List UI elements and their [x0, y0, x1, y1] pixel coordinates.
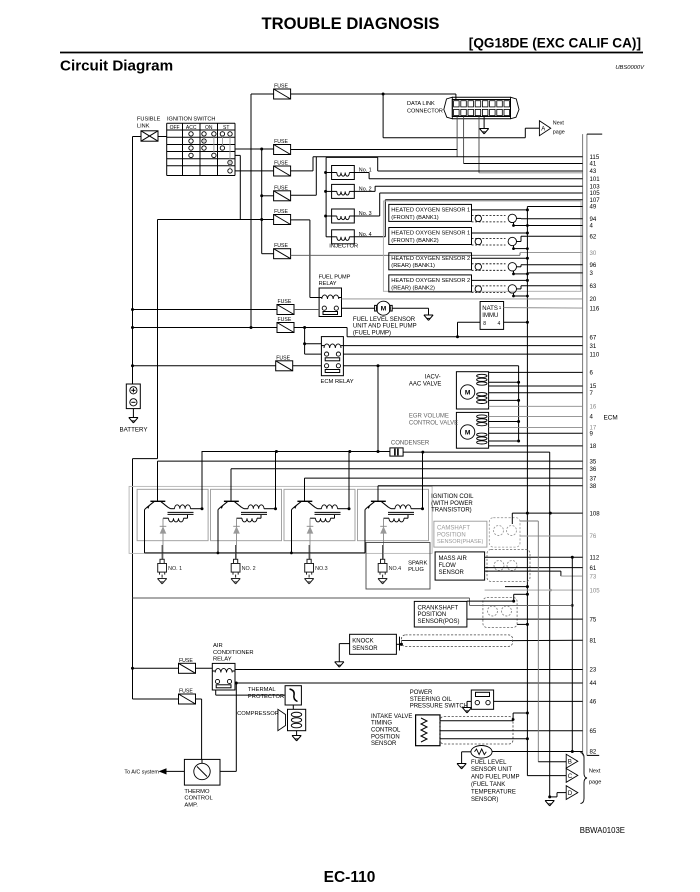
svg-text:FUSE: FUSE: [274, 243, 288, 249]
compressor CP: [278, 709, 306, 730]
wire crank shield: [467, 585, 529, 603]
condenser label: [391, 440, 430, 446]
svg-text:SENSOR UNIT: SENSOR UNIT: [471, 767, 512, 773]
svg-text:HEATED OXYGEN SENSOR 2: HEATED OXYGEN SENSOR 2: [391, 278, 470, 284]
svg-text:81: 81: [590, 637, 597, 644]
svg-text:30: 30: [590, 250, 597, 257]
svg-text:FUEL LEVEL: FUEL LEVEL: [471, 760, 507, 766]
svg-text:FUSE: FUSE: [276, 355, 290, 361]
wire crank pin75: [467, 618, 583, 620]
wire supply after condenser: [403, 451, 550, 454]
wire sensor shield riser: [571, 557, 574, 753]
svg-text:PLUG: PLUG: [408, 567, 424, 573]
fusible link label: [137, 117, 161, 130]
svg-text:NO. 1: NO. 1: [168, 566, 182, 572]
wire C arrow: [527, 775, 566, 777]
svg-text:(REAR) (BANK2): (REAR) (BANK2): [391, 285, 435, 291]
svg-text:FUSE: FUSE: [274, 209, 288, 215]
wire DLC pin3: [478, 117, 480, 173]
wire camshaft pin76: [520, 535, 583, 537]
ECM label: [604, 415, 618, 422]
svg-text:FUSE: FUSE: [179, 689, 193, 695]
svg-text:FUSE: FUSE: [278, 299, 292, 305]
wire pin108 line: [512, 512, 582, 524]
DLC ground: [480, 117, 489, 134]
svg-text:(FRONT) (BANK2): (FRONT) (BANK2): [391, 238, 439, 244]
svg-text:43: 43: [590, 168, 597, 175]
ECM relay RY2: [321, 337, 343, 376]
svg-text:4: 4: [498, 321, 501, 327]
wire DLC pin2: [463, 117, 465, 164]
wire ecm relay coil to 31: [343, 345, 582, 347]
fuse F2: [274, 139, 291, 155]
svg-text:23: 23: [590, 667, 597, 674]
svg-text:INJECTOR: INJECTOR: [329, 244, 358, 250]
wire heated oxygen sensor 1 front bank2 pinB: [517, 236, 583, 241]
svg-text:M: M: [381, 306, 387, 313]
svg-text:CONDITIONER: CONDITIONER: [213, 650, 254, 656]
svg-text:82: 82: [590, 749, 597, 756]
ignition switch contacts: [189, 132, 232, 173]
air conditioner relay label: [213, 643, 254, 662]
svg-text:B: B: [568, 759, 572, 766]
svg-text:[QG18DE (EXC CALIF CA)]: [QG18DE (EXC CALIF CA)]: [469, 36, 641, 51]
wire ign jog to left bus: [133, 458, 158, 460]
svg-text:CONTROL: CONTROL: [184, 796, 213, 802]
wire crank shield bottom: [517, 623, 529, 626]
svg-text:CRANKSHAFT: CRANKSHAFT: [418, 606, 459, 612]
next page label BCD: [589, 768, 601, 785]
svg-text:COMPRESSOR: COMPRESSOR: [237, 711, 279, 717]
fuse F6: [274, 243, 291, 259]
fuel pump motor M1: [375, 301, 393, 315]
spark plug4 box: [366, 543, 430, 590]
wire thermo riser: [220, 683, 236, 771]
wire heated oxygen sensor 2 rear bank2 pinA: [527, 272, 582, 274]
svg-text:SPARK: SPARK: [408, 560, 427, 566]
figure code BBWA0103E: [580, 826, 625, 835]
svg-text:IACV-: IACV-: [425, 374, 441, 380]
to ac system label: [124, 770, 159, 776]
spark plug P2: [231, 545, 256, 584]
svg-text:TRANSISTOR): TRANSISTOR): [431, 508, 472, 514]
svg-text:62: 62: [590, 234, 597, 241]
ac bus vertical: [132, 459, 134, 699]
svg-text:67: 67: [590, 334, 597, 341]
svg-text:D: D: [568, 790, 573, 797]
wire fuse5 left stub: [262, 219, 274, 221]
svg-text:EGR VOLUME: EGR VOLUME: [409, 414, 449, 420]
next page brace: [581, 753, 588, 804]
fuel sensor ground: [457, 764, 466, 769]
svg-text:SENSOR(POS): SENSOR(POS): [418, 619, 460, 625]
svg-text:C: C: [568, 773, 573, 780]
thermo control amp TCA: [184, 759, 220, 785]
svg-text:38: 38: [590, 483, 597, 490]
fuel pump relay RY1: [319, 288, 341, 317]
svg-text:DATA LINK: DATA LINK: [407, 101, 435, 107]
svg-text:63: 63: [590, 283, 597, 290]
wire fuse9 left: [133, 365, 276, 367]
fuel pump label: [353, 317, 417, 336]
wire to ac system: [159, 768, 185, 774]
ignition coil unit Q1: [137, 452, 208, 560]
wire heated oxygen sensor 2 rear bank2 pinB: [517, 286, 583, 289]
wire knock ground: [339, 644, 349, 662]
svg-text:PROTECTOR: PROTECTOR: [248, 694, 284, 700]
svg-text:101: 101: [590, 176, 601, 183]
wire pin115 line: [313, 156, 583, 158]
wire fuse4 left: [262, 195, 274, 197]
wire fuse10 to relay: [196, 667, 213, 669]
svg-text:16: 16: [590, 404, 597, 411]
wire ac bus corner fuse11: [133, 698, 179, 700]
ECM relay label: [321, 379, 354, 385]
compressor label: [237, 711, 279, 717]
svg-text:IMMU: IMMU: [482, 313, 498, 319]
wire fuse9 to relay: [293, 365, 322, 367]
wire pin41 line: [464, 163, 583, 165]
wire injector1 out: [354, 173, 582, 179]
svg-text:HEATED OXYGEN SENSOR 2: HEATED OXYGEN SENSOR 2: [391, 256, 470, 262]
ignition coil unit Q2: [211, 452, 282, 560]
svg-text:FLOW: FLOW: [439, 563, 457, 569]
wire ecm relay out: [343, 364, 518, 367]
wire ivt pin65: [440, 730, 583, 732]
wire injector4 out: [354, 200, 582, 237]
thermo control amp label: [184, 789, 213, 809]
svg-text:SENSOR): SENSOR): [471, 797, 498, 803]
wire knock signal: [396, 637, 582, 651]
fuse F9: [276, 355, 293, 371]
ignition switch SW1 table: [167, 123, 235, 175]
battery label: [120, 427, 148, 434]
spark plug P4: [378, 545, 401, 584]
svg-text:ECM RELAY: ECM RELAY: [321, 379, 354, 385]
wire iacv pin6: [489, 371, 583, 373]
svg-text:(REAR) (BANK1): (REAR) (BANK1): [391, 263, 435, 269]
svg-text:AIR: AIR: [213, 643, 223, 649]
sensor ground bus vertical: [526, 207, 528, 776]
fusible link FL: [141, 131, 158, 141]
ignition switch label: [167, 117, 215, 123]
fuse feed bus B: [260, 149, 263, 254]
wire ignition ground bus: [145, 552, 366, 555]
wire maf pin73: [485, 571, 583, 576]
power steering ground: [462, 708, 471, 713]
junction dot fuse7 tap: [131, 308, 134, 311]
svg-text:41: 41: [590, 161, 597, 168]
EGR volume control valve V2: [456, 412, 488, 448]
wire heated oxygen sensor 1 front bank2 pinA: [527, 225, 582, 227]
wire ecm relay row1 to 110: [343, 353, 582, 355]
knock sensor ground: [335, 662, 344, 667]
svg-text:UNIT AND FUEL PUMP: UNIT AND FUEL PUMP: [353, 324, 417, 330]
wire fuel level to 82: [492, 751, 582, 753]
svg-text:AND FUEL PUMP: AND FUEL PUMP: [471, 775, 519, 781]
wire fuse7 left: [133, 309, 278, 311]
svg-text:18: 18: [590, 443, 597, 450]
wire ignition supply: [202, 450, 390, 453]
wire relay riser to supply: [377, 366, 379, 452]
svg-text:96: 96: [590, 262, 597, 269]
injector No.2: [326, 184, 372, 198]
crankshaft position sensor CKP: [414, 598, 517, 628]
NATS IMMU unit U2: [480, 302, 504, 330]
IACV label: [409, 374, 441, 387]
svg-text:M: M: [465, 430, 471, 437]
spark plug P1: [158, 545, 183, 584]
wire fuel sensor ground: [462, 752, 471, 764]
svg-text:46: 46: [590, 699, 597, 706]
wire DLC gray line: [479, 172, 583, 174]
thermal protector TP: [285, 686, 301, 705]
wire fuse2 out: [291, 149, 458, 151]
svg-text:105: 105: [590, 587, 601, 594]
fuse F11: [179, 689, 196, 705]
svg-text:TEMPERATURE: TEMPERATURE: [471, 789, 516, 795]
wire ps ground: [467, 701, 471, 707]
thermal protector label: [248, 687, 284, 700]
svg-text:STEERING OIL: STEERING OIL: [410, 697, 453, 703]
wire fuse6 out: [291, 253, 583, 256]
svg-text:BATTERY: BATTERY: [120, 427, 148, 434]
svg-text:POSITION: POSITION: [371, 734, 400, 740]
footer page number EC-110: [324, 869, 376, 886]
svg-text:EC-110: EC-110: [324, 869, 376, 886]
wire fuse8 left: [133, 327, 278, 329]
svg-text:ON: ON: [205, 125, 213, 131]
HO2S group frame: [383, 201, 581, 291]
svg-text:61: 61: [590, 565, 597, 572]
next page arrow D: [566, 786, 578, 800]
svg-text:AAC VALVE: AAC VALVE: [409, 381, 441, 387]
wire NATS pin8: [456, 322, 480, 338]
wire iacv common2: [489, 399, 520, 402]
wire supply riser iacv: [518, 366, 520, 441]
injector group label: [329, 244, 358, 250]
svg-text:(FUEL TANK: (FUEL TANK: [471, 782, 505, 788]
svg-text:SENSOR: SENSOR: [371, 741, 397, 747]
svg-text:Circuit Diagram: Circuit Diagram: [60, 58, 173, 75]
IACV-AAC valve V1: [456, 372, 488, 409]
wire iacv common1: [489, 381, 520, 384]
wire pin20 line: [342, 298, 583, 300]
svg-text:SENSOR(PHASE): SENSOR(PHASE): [437, 539, 483, 545]
junction dot ac fuse tap: [131, 667, 134, 670]
ignition coil unit Q3: [284, 452, 355, 560]
injector No.3: [326, 209, 372, 223]
fuse F1: [274, 84, 291, 100]
svg-text:31: 31: [590, 343, 597, 350]
wire thermal to compressor: [292, 705, 294, 709]
svg-text:THERMAL: THERMAL: [248, 687, 276, 693]
svg-text:65: 65: [590, 728, 597, 735]
camshaft position sensor CMP: [434, 518, 520, 547]
svg-text:Next: Next: [589, 768, 601, 774]
wire egr pin18: [489, 445, 583, 447]
ignition coil unit Q4: [357, 452, 428, 560]
wire fuse11 to thermo: [196, 699, 202, 759]
fuse feed bus A: [250, 94, 253, 329]
wire main ground drop: [549, 452, 551, 797]
wire ign ST row to fuse3: [235, 170, 274, 172]
svg-text:73: 73: [590, 573, 597, 580]
next page arrow C: [566, 769, 578, 783]
wire fuse7 to relay contact: [294, 309, 319, 311]
wire heated oxygen sensor 1 front bank1 pinB: [517, 217, 583, 219]
svg-text:FUEL PUMP: FUEL PUMP: [319, 274, 351, 280]
svg-text:Next: Next: [553, 121, 565, 127]
wire ac relay to 44: [235, 682, 583, 685]
svg-text:20: 20: [590, 296, 597, 303]
knock sensor KS: [350, 634, 397, 654]
junction dot fuse8 tap: [131, 326, 134, 329]
svg-text:HEATED OXYGEN SENSOR 1: HEATED OXYGEN SENSOR 1: [391, 231, 470, 237]
wire relay to pump: [342, 307, 375, 309]
svg-text:FUSE: FUSE: [274, 185, 288, 191]
wire ps to 46: [494, 700, 583, 702]
power steering oil pressure switch PS: [471, 690, 493, 709]
wire ivt top: [440, 712, 529, 721]
wire fuse1 to DLC: [291, 93, 456, 100]
ignition units frame: [129, 486, 432, 553]
svg-text:FUSE: FUSE: [274, 139, 288, 145]
wire ground jog: [470, 598, 574, 607]
wire trigger 37: [305, 477, 583, 479]
fuel tank temperature sensor: [471, 746, 492, 759]
wire maf pin61: [485, 567, 583, 569]
battery B1: [126, 384, 140, 418]
wire iacv pin16: [489, 405, 583, 407]
fuse F8: [277, 317, 294, 333]
svg-text:M: M: [465, 390, 471, 397]
svg-text:page: page: [553, 130, 565, 136]
svg-text:(FUEL PUMP): (FUEL PUMP): [353, 330, 391, 336]
svg-text:FUSE: FUSE: [274, 84, 288, 90]
wire ac relay to 23: [235, 669, 583, 671]
svg-text:TROUBLE DIAGNOSIS: TROUBLE DIAGNOSIS: [262, 14, 440, 33]
svg-text:IGNITION COIL: IGNITION COIL: [431, 494, 474, 500]
svg-text:FUEL LEVEL SENSOR: FUEL LEVEL SENSOR: [353, 317, 416, 323]
svg-text:116: 116: [590, 305, 600, 312]
wire maf pin112: [485, 556, 583, 559]
injector No.4: [326, 230, 372, 244]
fuse F10: [179, 658, 196, 674]
data link connector label: [407, 101, 443, 115]
wire fuse1 left: [251, 93, 274, 95]
svg-text:BBWA0103E: BBWA0103E: [580, 826, 625, 835]
subtitle QG18DE: [469, 36, 641, 51]
svg-text:112: 112: [590, 554, 600, 561]
svg-text:TIMING: TIMING: [371, 721, 392, 727]
next page label A: [553, 121, 565, 136]
main ground: [545, 801, 554, 806]
svg-text:76: 76: [590, 533, 597, 540]
svg-text:35: 35: [590, 458, 597, 465]
wire trigger 36: [231, 468, 583, 470]
wire iacv pin15: [489, 385, 583, 387]
wire ivt bottom: [440, 737, 529, 740]
svg-text:To A/C system: To A/C system: [124, 770, 159, 776]
wire iacv pin7: [489, 392, 583, 394]
section heading Circuit Diagram: [60, 58, 173, 75]
doc code UBS0000V: [615, 65, 645, 71]
wire trigger 38: [378, 485, 583, 487]
fuel pump relay label: [319, 274, 351, 287]
svg-text:CONTROL: CONTROL: [371, 728, 401, 734]
junction dot fuse9 tap: [131, 364, 134, 367]
svg-text:36: 36: [590, 466, 597, 473]
wire fuse5 out: [291, 220, 320, 298]
wire NATS pin4 to ground bus: [504, 321, 529, 324]
svg-text:FUSE: FUSE: [274, 161, 288, 167]
battery bus vertical: [132, 137, 134, 385]
EGR label: [409, 414, 458, 427]
wire compressor ground: [296, 731, 298, 736]
heated oxygen sensor 2 rear bank2: [389, 275, 529, 298]
svg-text:page: page: [589, 779, 601, 785]
wire ecm relay coil feed: [303, 328, 321, 355]
svg-text:NO.3: NO.3: [315, 566, 328, 572]
svg-text:ACC: ACC: [186, 125, 197, 131]
wire D ground link: [548, 793, 566, 799]
ECM connector bus: [583, 134, 603, 755]
wire egr common1: [489, 420, 520, 423]
svg-text:UBS0000V: UBS0000V: [615, 65, 645, 71]
injector No.1: [326, 166, 372, 180]
page title TROUBLE DIAGNOSIS: [262, 14, 440, 33]
svg-text:CONNECTOR: CONNECTOR: [407, 109, 443, 115]
wire maf pin105: [485, 589, 583, 592]
svg-text:CONTROL VALVE: CONTROL VALVE: [409, 421, 458, 427]
svg-text:ECM: ECM: [604, 415, 618, 422]
wire fusible link: [133, 136, 167, 138]
svg-text:MASS AIR: MASS AIR: [439, 556, 468, 562]
mass air flow sensor MAF: [435, 550, 530, 582]
ECM pin numbers: [590, 154, 601, 756]
wire heated oxygen sensor 1 front bank1 pinA: [527, 206, 582, 208]
svg-text:110: 110: [590, 351, 600, 358]
fuel sensor label: [471, 760, 519, 803]
svg-text:AMP.: AMP.: [184, 802, 198, 808]
fuse F7: [277, 299, 294, 315]
wire egr pin17: [489, 426, 583, 428]
spark plug P3: [305, 545, 328, 584]
svg-text:49: 49: [590, 204, 597, 211]
wire trigger 35: [158, 460, 583, 462]
svg-text:POSITION: POSITION: [418, 612, 447, 618]
heated oxygen sensor 1 front bank1: [389, 204, 529, 227]
svg-text:CONDENSER: CONDENSER: [391, 440, 430, 446]
svg-text:POSITION: POSITION: [437, 532, 466, 538]
svg-text:RELAY: RELAY: [213, 657, 232, 663]
intake valve shield: [440, 717, 513, 745]
spark plug caption: [408, 560, 427, 573]
knock shield: [401, 635, 512, 647]
wire pump to ground: [392, 308, 428, 315]
svg-text:(WITH POWER: (WITH POWER: [431, 501, 473, 507]
header rule: [60, 52, 643, 54]
svg-text:POWER: POWER: [410, 690, 433, 696]
wire egr pin4: [489, 415, 583, 417]
svg-text:ST: ST: [223, 125, 229, 131]
svg-text:LINK: LINK: [137, 124, 150, 130]
svg-text:SENSOR: SENSOR: [352, 646, 378, 652]
wire A-branch: [383, 94, 539, 138]
wire injector2 out: [354, 186, 582, 191]
svg-text:FUSE: FUSE: [179, 658, 193, 664]
